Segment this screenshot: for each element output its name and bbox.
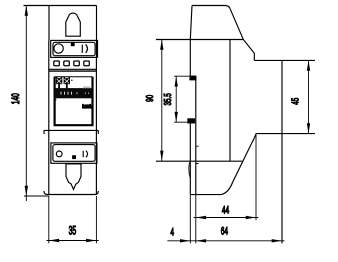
face label box (83, 85, 92, 89)
lower small black square (73, 156, 76, 159)
35 dim arrows (49, 239, 97, 242)
LCD black band (55, 88, 93, 98)
block top line + 45 ext (254, 59, 315, 61)
meter face thick frame (55, 76, 93, 78)
svg-text:45: 45 (289, 98, 301, 105)
svg-text:4: 4 (170, 226, 174, 238)
top section left edge (48, 6, 50, 41)
rail hook top (190, 76, 196, 80)
upper left screw circle (54, 44, 63, 53)
back edge v1 (189, 40, 191, 195)
block front face + 64 ext (281, 60, 283, 243)
face screw symbol left (56, 77, 62, 88)
svg-text:35: 35 (69, 225, 77, 238)
35 dimension line (47, 240, 99, 242)
140 dim extension bottom (24, 195, 49, 197)
svg-text:44: 44 (222, 204, 229, 216)
4 dim arrows (outside) (180, 239, 206, 242)
svg-text:35.5: 35.5 (161, 93, 173, 105)
45 dimension line (308, 60, 310, 133)
svg-text:64: 64 (221, 225, 228, 237)
4/64 extension lines (190, 195, 196, 244)
lower terminal inner rounded box (53, 145, 95, 162)
body right edge (229, 40, 231, 162)
clip bottom line (190, 194, 221, 196)
clip ticks (196, 146, 199, 163)
back edge v2 (195, 76, 197, 194)
35.5 extension ticks (174, 76, 196, 122)
block bottom line + 45 ext (256, 133, 315, 135)
lower section top line with flange ticks (44, 130, 98, 134)
upper right screw slot (82, 44, 87, 53)
upper terminal cover box (51, 40, 98, 57)
90 dim arrows (160, 40, 163, 161)
140 dimension line (25, 6, 27, 202)
upper small black square (71, 43, 74, 46)
face label underline (83, 86, 90, 88)
body side edges (49, 40, 97, 194)
seal arch (66, 13, 81, 36)
block slanted underside (221, 134, 256, 195)
upper terminal squares row (54, 61, 60, 66)
LCD digits white marks (61, 92, 89, 95)
svg-text:90: 90 (143, 95, 155, 102)
body top thick line (49, 70, 97, 72)
upper terminal inner rounded box (53, 42, 95, 55)
small mark under band (55, 99, 57, 100)
svg-text:kWh: kWh (82, 104, 92, 110)
lower terminal cover box (51, 143, 97, 163)
svg-text:140: 140 (9, 93, 21, 104)
right slant top (230, 8, 254, 60)
140 dim arrows (25, 6, 28, 197)
din clip arrow pentagon (66, 164, 81, 190)
35.5 dim arrows (175, 76, 178, 122)
44 ext line (255, 134, 257, 221)
top section right edge (96, 6, 98, 41)
terminal section bottom line (49, 68, 97, 70)
top edge line + 140 top extension (24, 5, 97, 7)
face screw symbol right (64, 77, 70, 88)
hline cover/body joint + 90 ext (156, 39, 243, 41)
45 dim arrows (307, 60, 310, 133)
top edge (192, 6, 230, 9)
rail hook bottom (188, 119, 195, 123)
lower left screw circle (56, 151, 62, 157)
left slant edge (190, 6, 192, 40)
lower right screw slot (83, 151, 87, 158)
64 dim right arrow (272, 239, 282, 242)
clip spring bulge (189, 161, 190, 178)
body bottom line + 90 ext (156, 160, 242, 162)
bottom dimension line 4 / 64 (167, 240, 284, 242)
35.5 dimension line (175, 76, 177, 122)
90 dimension line (161, 40, 163, 161)
44 dim arrows (196, 216, 256, 219)
35 dim extensions (49, 196, 97, 243)
44 dimension line (194, 217, 259, 219)
front bottom line (44, 191, 98, 195)
